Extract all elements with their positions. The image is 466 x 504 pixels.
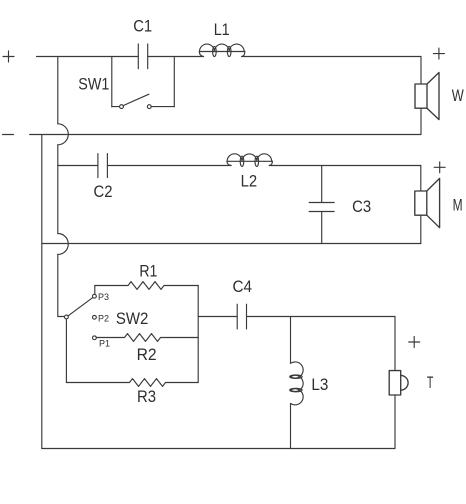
wire C2 branch left bbox=[58, 165, 98, 167]
wire C3 branch top bbox=[321, 166, 323, 203]
wire C4 to tweeter bbox=[247, 316, 396, 318]
wire minus rail vertical bbox=[41, 135, 43, 449]
label plus M bbox=[434, 162, 445, 173]
wire C1 right segment bbox=[148, 56, 175, 58]
inductor L2 bbox=[227, 154, 273, 167]
wire C3 branch bottom bbox=[321, 212, 323, 244]
wire C2 to L2 bbox=[107, 165, 230, 167]
svg-text:R3: R3 bbox=[137, 388, 156, 406]
wire positive rail drop 3 bbox=[57, 255, 59, 317]
svg-text:C1: C1 bbox=[133, 17, 152, 35]
svg-text:P3: P3 bbox=[98, 292, 109, 303]
capacitor C4 bbox=[237, 304, 246, 329]
speaker W woofer bbox=[415, 57, 439, 135]
svg-text:R1: R1 bbox=[139, 263, 157, 281]
wire positive rail drop bbox=[57, 57, 59, 124]
label plus W bbox=[433, 48, 444, 59]
svg-text:T: T bbox=[427, 374, 434, 392]
wire hop over minus wire bbox=[58, 124, 69, 145]
svg-text:SW1: SW1 bbox=[78, 75, 109, 93]
resistor R1 bbox=[95, 282, 198, 290]
switch SW1 bbox=[112, 57, 175, 109]
svg-text:M: M bbox=[453, 197, 463, 215]
svg-text:L2: L2 bbox=[241, 173, 258, 191]
resistor R2 bbox=[96, 334, 198, 342]
svg-text:P2: P2 bbox=[98, 314, 109, 325]
wire stub to SW2 pivot bbox=[58, 316, 65, 318]
speaker T tweeter bbox=[389, 317, 408, 449]
terminal plus input bbox=[3, 51, 14, 62]
wire top positive rail horizontal bbox=[37, 56, 112, 58]
wire L2 to midrange bbox=[269, 165, 421, 167]
svg-text:C3: C3 bbox=[352, 198, 371, 216]
svg-text:C4: C4 bbox=[233, 278, 253, 296]
label plus T bbox=[409, 337, 420, 348]
wire mid return bbox=[42, 243, 421, 245]
svg-text:L3: L3 bbox=[311, 376, 328, 394]
svg-text:SW2: SW2 bbox=[116, 310, 148, 328]
svg-text:P1: P1 bbox=[99, 339, 110, 350]
wire L1 left segment bbox=[174, 56, 203, 58]
speaker M midrange bbox=[415, 166, 440, 244]
wire SW2 pivot drop bbox=[65, 319, 67, 383]
resistor R3 bbox=[66, 379, 198, 387]
wire L1 right segment to woofer bbox=[242, 56, 421, 58]
capacitor C1 bbox=[138, 44, 147, 69]
capacitor C3 bbox=[309, 203, 334, 212]
wire hop over mid return wire bbox=[58, 234, 69, 255]
inductor L3 bbox=[290, 362, 303, 405]
terminal minus input bbox=[3, 134, 14, 136]
wire positive rail drop 2 bbox=[57, 145, 59, 234]
wire bottom return bbox=[42, 448, 395, 450]
wire C1 left segment bbox=[112, 56, 139, 58]
wire L3 branch bottom bbox=[290, 404, 292, 449]
svg-text:R2: R2 bbox=[137, 346, 157, 364]
capacitor C2 bbox=[98, 154, 108, 178]
wire attenuator output to C4 bbox=[198, 316, 237, 318]
svg-text:W: W bbox=[452, 87, 464, 105]
inductor L1 bbox=[199, 44, 245, 57]
wire woofer return minus bbox=[30, 134, 421, 136]
wire L3 branch top bbox=[290, 317, 292, 364]
svg-text:L1: L1 bbox=[214, 21, 230, 39]
wire attenuator right rail bbox=[197, 286, 199, 383]
switch SW2 bbox=[65, 294, 97, 339]
wire P3 riser bbox=[94, 286, 96, 295]
svg-text:C2: C2 bbox=[94, 183, 113, 201]
